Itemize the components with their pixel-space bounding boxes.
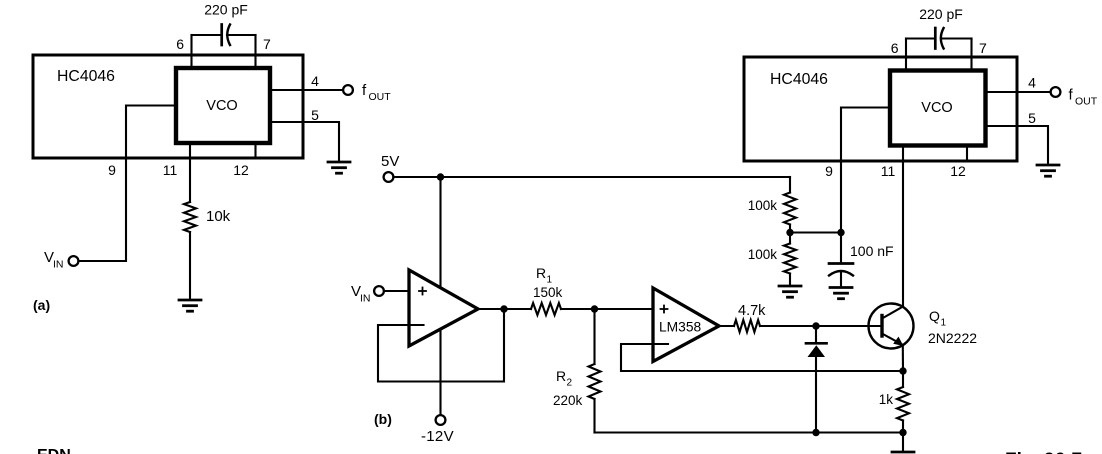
svg-text:6: 6 — [176, 36, 184, 52]
pin 12 stub (b) — [966, 146, 968, 162]
feedback wire A2 to emitter — [621, 344, 903, 371]
R1 label — [533, 265, 563, 300]
emitter wire — [902, 345, 904, 372]
svg-text:IN: IN — [360, 293, 371, 305]
resistor 100k upper — [784, 193, 796, 225]
svg-text:2: 2 — [567, 378, 573, 389]
pin 12 stub (a) — [254, 143, 256, 158]
junction emitter / feedback — [899, 367, 906, 374]
svg-text:11: 11 — [881, 163, 896, 179]
svg-text:LM358: LM358 — [659, 320, 702, 335]
svg-text:150k: 150k — [533, 285, 563, 300]
Q1 base bar — [880, 316, 883, 337]
svg-text:6: 6 — [891, 40, 899, 56]
svg-text:100 nF: 100 nF — [850, 243, 894, 259]
op-amp A2 LM358 — [653, 288, 719, 362]
svg-text:VCO: VCO — [206, 98, 237, 114]
wire VIN to + input — [384, 290, 409, 292]
svg-text:5V: 5V — [381, 153, 399, 170]
wire 1k to rail — [902, 421, 904, 433]
junction R1/R2 node — [591, 305, 598, 312]
svg-text:5: 5 — [1028, 110, 1036, 126]
terminal fOUT (b) — [1051, 87, 1061, 97]
svg-text:Fig. 96-7: Fig. 96-7 — [1005, 450, 1082, 454]
svg-text:9: 9 — [108, 162, 116, 178]
svg-text:HC4046: HC4046 — [57, 68, 115, 85]
pin 4 wire (a) — [270, 89, 343, 91]
wire pin 7 (a) — [254, 35, 256, 68]
pin 5 wire (b) — [986, 126, 1049, 165]
junction rail / ground — [899, 429, 906, 436]
resistor R1 150k — [531, 303, 561, 315]
junction diode node — [812, 322, 819, 329]
junction diode / bottom rail — [812, 429, 819, 436]
wire node to R2 — [593, 309, 595, 364]
Q1 label — [928, 308, 977, 346]
terminal -12V — [436, 415, 446, 425]
pin 9 wire (b) — [841, 108, 890, 233]
svg-text:4.7k: 4.7k — [738, 303, 766, 319]
svg-text:11: 11 — [163, 162, 178, 178]
R2 label — [553, 368, 583, 408]
diode D1 — [806, 326, 827, 433]
fOUT label (a) — [362, 82, 391, 103]
capacitor C 220pF (a) wires — [192, 34, 222, 36]
svg-text:(a): (a) — [33, 297, 50, 313]
IC HC4046 (b) outer box — [744, 57, 1017, 161]
VCO block (b) — [890, 71, 986, 146]
wire R1 to LM358 + — [561, 308, 653, 310]
svg-text:R: R — [536, 265, 546, 281]
resistor 100k lower — [784, 244, 796, 274]
wire 5V rail to 100k — [789, 177, 791, 193]
pin 9 wire (a) — [79, 106, 177, 262]
resistor 1k — [897, 387, 909, 421]
svg-text:2N2222: 2N2222 — [928, 330, 977, 346]
svg-text:100k: 100k — [748, 247, 778, 262]
svg-text:5: 5 — [311, 107, 319, 123]
svg-text:OUT: OUT — [1075, 96, 1098, 108]
svg-text:220 pF: 220 pF — [919, 6, 963, 22]
transistor Q1 circle — [869, 304, 914, 349]
VIN label (a) — [44, 249, 64, 271]
junction 5V / op-amp supply — [437, 173, 444, 180]
wire 4.7k to base — [760, 325, 881, 327]
wire op-amp V- to -12V — [439, 330, 441, 415]
svg-text:10k: 10k — [206, 208, 231, 225]
resistor 4.7k — [734, 320, 760, 332]
wire emitter to 1k — [902, 371, 904, 387]
wire pin 7 (b) — [970, 39, 972, 71]
svg-text:IN: IN — [53, 259, 64, 271]
svg-text:VCO: VCO — [921, 100, 952, 116]
svg-text:Q: Q — [929, 308, 940, 324]
svg-text:4: 4 — [1028, 75, 1036, 91]
fOUT label (b) — [1069, 87, 1098, 108]
terminal VIN (a) — [69, 256, 79, 266]
junction divider — [786, 229, 793, 236]
wire pin 6 (a) — [190, 35, 192, 68]
svg-text:4: 4 — [311, 73, 319, 89]
svg-text:220k: 220k — [553, 393, 583, 408]
svg-text:HC4046: HC4046 — [770, 71, 828, 88]
svg-text:1k: 1k — [879, 392, 894, 407]
pin 5 wire (a) — [270, 122, 339, 162]
wire 100k to ground — [789, 274, 791, 287]
wire R2 to bottom rail — [593, 399, 595, 433]
VCO block (a) — [176, 68, 270, 143]
pin 4 wire (b) — [986, 91, 1051, 93]
pin 11 / collector wire (b) — [902, 146, 904, 307]
wire divider to cap node — [790, 231, 841, 233]
ground 10k (a) — [179, 300, 201, 311]
capacitor C 220pF (a) plates — [222, 25, 230, 46]
junction cap node — [837, 229, 844, 236]
IC HC4046 (a) outer box — [33, 55, 303, 158]
svg-text:100k: 100k — [748, 198, 778, 213]
bottom rail wire — [595, 431, 904, 433]
svg-text:R: R — [556, 368, 566, 384]
ground 100nF — [830, 288, 852, 299]
capacitor C 220pF (b) plates — [935, 28, 943, 49]
svg-text:12: 12 — [950, 163, 966, 179]
svg-text:1: 1 — [547, 275, 553, 286]
junction A1 output — [500, 305, 507, 312]
wire A2 output — [719, 325, 734, 327]
svg-text:9: 9 — [825, 163, 833, 179]
wire 10k to ground (a) — [189, 232, 191, 300]
op-amp A1 buffer — [409, 270, 478, 346]
wire to ground Q1 — [902, 433, 904, 453]
pin 11 wire upper (a) — [189, 143, 191, 202]
svg-text:12: 12 — [233, 162, 249, 178]
capacitor 100nF — [829, 233, 853, 288]
svg-text:7: 7 — [263, 36, 271, 52]
capacitor C 220pF (b) wires — [906, 37, 935, 39]
svg-text:220 pF: 220 pF — [204, 2, 248, 18]
VIN label (b) — [351, 283, 371, 305]
terminal VIN (b) — [374, 286, 384, 296]
5V rail wire — [393, 176, 790, 178]
svg-text:EDN: EDN — [37, 447, 71, 454]
Q1 emitter with arrow — [882, 334, 904, 347]
wire between 100k resistors — [789, 225, 791, 244]
feedback wire A1 — [378, 309, 504, 382]
ground 100k divider — [779, 286, 801, 297]
terminal 5V — [384, 172, 394, 182]
terminal fOUT (a) — [343, 85, 353, 95]
svg-text:7: 7 — [979, 40, 987, 56]
resistor R2 220k — [589, 364, 601, 399]
svg-text:-12V: -12V — [421, 428, 454, 445]
Q1 collector — [882, 307, 903, 319]
wire 5V to op-amp V+ — [439, 177, 441, 288]
wire pin 6 (b) — [905, 39, 907, 71]
wire A1 output to R1 — [478, 308, 531, 310]
resistor 10k (a) — [184, 202, 196, 232]
svg-text:(b): (b) — [374, 411, 392, 427]
svg-text:OUT: OUT — [369, 91, 392, 103]
ground Q1 emitter — [892, 452, 914, 454]
svg-text:1: 1 — [941, 318, 947, 329]
ground pin 5 (a) — [328, 162, 350, 173]
ground pin 5 (b) — [1037, 165, 1059, 176]
